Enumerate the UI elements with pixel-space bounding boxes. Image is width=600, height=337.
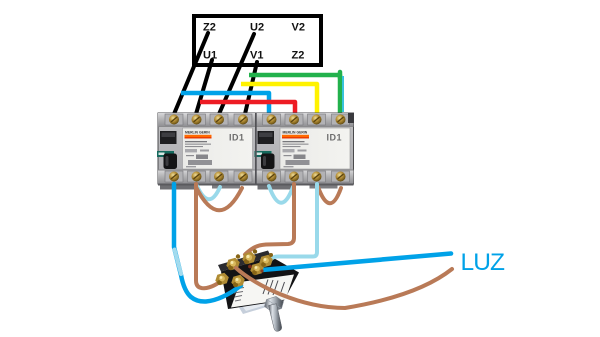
wire blue to LUZ: [262, 254, 451, 271]
RCD1 test window: [160, 131, 177, 144]
RCD2 test window: [258, 131, 275, 144]
breaker bottom edge: [158, 184, 354, 186]
wire brown RCD2 t2 to switch: [245, 184, 294, 255]
RCD2 rating strip: [255, 151, 272, 157]
svg-text:V2: V2: [292, 22, 305, 34]
wire black U2 to RCD1 terminal 3: [219, 34, 254, 114]
svg-text:MERLIN GERIN: MERLIN GERIN: [283, 131, 308, 135]
RCD2 toggle lever: [261, 154, 275, 170]
jumper brown RCD1 t2-t4: [196, 187, 242, 210]
RCD2 white label: [280, 128, 350, 169]
svg-text:U2: U2: [250, 22, 264, 34]
breaker RCD1: [157, 113, 256, 190]
right end cap: [348, 113, 354, 123]
breaker RCD2: [255, 113, 354, 190]
jumper light-blue RCD1 t2-t3: [197, 186, 220, 199]
svg-text:V1: V1: [250, 50, 263, 62]
SW1 lever bushing nut: [265, 297, 284, 312]
SW1 lever: [269, 304, 282, 332]
wire light-blue RCD2 t3 to switch: [269, 184, 317, 263]
jumper brown RCD2 t3-t4: [318, 187, 341, 203]
wire black Z2 to RCD1 terminal 1: [174, 33, 208, 114]
RCD1 top terminals: [165, 114, 252, 125]
wire cyan alongside green: [342, 76, 344, 112]
wire brown RCD1 t2 to switch: [196, 184, 224, 288]
RCD1 toggle lever: [164, 154, 178, 170]
SW1 white label: [231, 275, 294, 308]
wire black V1 to RCD1 terminal 4: [245, 62, 257, 114]
wire blue highlight: [175, 250, 182, 275]
RCD2 top terminals: [263, 114, 350, 125]
toggle switch SW1: [218, 251, 299, 315]
wire blue to RCD2 terminal 1: [181, 93, 269, 115]
wire green to RCD2 terminal 4: [249, 75, 340, 115]
wire blue RCD1 t1 to switch: [174, 184, 241, 302]
seam between breakers: [255, 113, 257, 184]
wire brown to LUZ: [236, 268, 452, 308]
RCD1 rating strip: [157, 151, 174, 157]
wire yellow to RCD2 terminal 3: [241, 84, 317, 115]
svg-text:MERLIN GERIN: MERLIN GERIN: [185, 131, 210, 135]
svg-text:Z2: Z2: [292, 50, 305, 62]
SW1 top face: [218, 251, 271, 272]
svg-text:ID1: ID1: [327, 133, 343, 143]
svg-text:ID1: ID1: [229, 133, 245, 143]
RCD1 white label: [183, 128, 253, 169]
motor terminal box: [194, 16, 321, 65]
wire black U1 to RCD1 terminal 2: [196, 60, 212, 114]
wire scrap bits: [248, 265, 252, 269]
RCD2 bottom terminals: [263, 171, 350, 182]
svg-text:LUZ: LUZ: [461, 249, 506, 276]
RCD1 bottom terminals: [165, 171, 252, 182]
SW1 body: [221, 257, 299, 310]
SW1 terminal screws: [215, 249, 273, 287]
SW1 metal frame: [232, 289, 273, 314]
wire red to RCD2 terminal 2: [200, 102, 295, 115]
jumper light-blue RCD2 t1-t2: [269, 186, 293, 203]
